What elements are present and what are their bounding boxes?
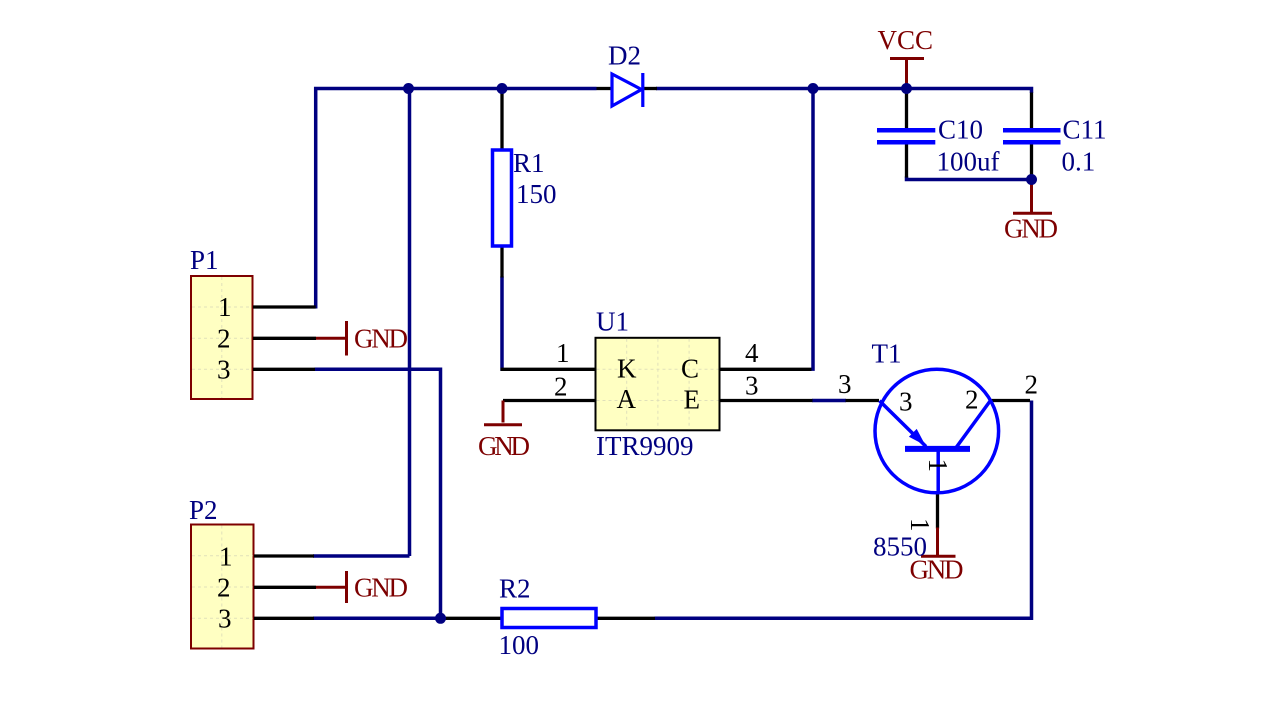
svg-text:2: 2 <box>1025 370 1039 400</box>
svg-text:E: E <box>684 385 701 415</box>
svg-text:GND: GND <box>910 555 964 585</box>
svg-text:2: 2 <box>217 573 231 603</box>
svg-text:C10: C10 <box>938 115 983 145</box>
svg-text:0.1: 0.1 <box>1062 146 1096 176</box>
svg-text:100uf: 100uf <box>937 146 1000 176</box>
svg-text:3: 3 <box>218 604 232 634</box>
svg-text:100: 100 <box>499 630 540 660</box>
svg-text:A: A <box>617 384 637 414</box>
svg-text:D2: D2 <box>608 41 641 71</box>
svg-text:1: 1 <box>923 459 953 473</box>
svg-text:K: K <box>617 354 637 384</box>
svg-text:2: 2 <box>554 372 568 402</box>
svg-text:R2: R2 <box>499 574 531 604</box>
svg-text:3: 3 <box>745 371 759 401</box>
svg-text:1: 1 <box>218 292 232 322</box>
svg-text:4: 4 <box>745 338 759 368</box>
svg-text:1: 1 <box>556 338 570 368</box>
svg-text:C: C <box>681 354 699 384</box>
svg-text:150: 150 <box>516 179 557 209</box>
svg-text:T1: T1 <box>872 339 902 369</box>
svg-text:GND: GND <box>478 431 530 461</box>
svg-text:3: 3 <box>899 387 913 417</box>
svg-text:U1: U1 <box>596 307 629 337</box>
svg-text:GND: GND <box>354 324 408 354</box>
svg-text:3: 3 <box>838 369 852 399</box>
svg-text:GND: GND <box>354 573 408 603</box>
svg-text:VCC: VCC <box>878 25 934 55</box>
svg-text:P1: P1 <box>190 245 219 275</box>
svg-text:2: 2 <box>965 385 979 415</box>
svg-text:2: 2 <box>217 324 231 354</box>
svg-text:C11: C11 <box>1063 115 1107 145</box>
svg-text:1: 1 <box>905 518 935 532</box>
svg-text:3: 3 <box>217 355 231 385</box>
svg-text:R1: R1 <box>513 148 545 178</box>
svg-text:1: 1 <box>219 542 233 572</box>
svg-text:ITR9909: ITR9909 <box>596 431 694 461</box>
svg-text:GND: GND <box>1004 214 1058 244</box>
svg-text:P2: P2 <box>189 495 218 525</box>
